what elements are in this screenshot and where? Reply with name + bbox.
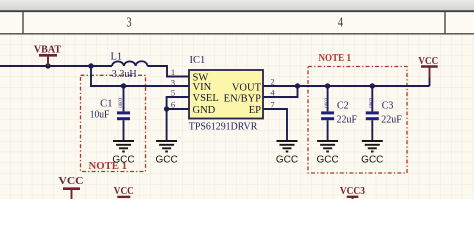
ground GCC under C1 xyxy=(112,141,134,165)
inductor L1 xyxy=(111,52,148,81)
power port VCC bottom-left xyxy=(59,176,84,199)
ground GCC under C3 xyxy=(361,141,383,165)
svg-text:5: 5 xyxy=(171,88,175,98)
svg-text:VIN: VIN xyxy=(193,82,212,93)
wire: GND pin xyxy=(167,108,189,110)
svg-text:1: 1 xyxy=(171,67,175,77)
svg-text:10uF: 10uF xyxy=(90,110,110,121)
svg-text:VCC: VCC xyxy=(418,56,438,67)
svg-text:4: 4 xyxy=(338,14,343,30)
power port VBAT xyxy=(34,45,61,66)
svg-text:C3: C3 xyxy=(382,100,394,111)
pin 6 GND xyxy=(171,99,216,115)
svg-text:GCC: GCC xyxy=(316,154,338,165)
junction at L1 branch xyxy=(88,63,93,68)
power port VCC3 bottom xyxy=(340,186,365,199)
sheet border band xyxy=(0,11,474,34)
pin 7 EP xyxy=(249,99,275,116)
ground GCC under EP xyxy=(276,141,298,165)
wire: VCC drop xyxy=(429,77,431,86)
NOTE 1 box left (dashed) xyxy=(81,75,146,171)
workspace gray strip above sheet xyxy=(0,0,474,11)
svg-text:GCC: GCC xyxy=(361,154,383,165)
pin 2 VOUT xyxy=(232,76,275,93)
svg-text:EN/BYP: EN/BYP xyxy=(224,93,262,104)
pin 1 SW xyxy=(171,67,208,83)
capacitor C2 xyxy=(321,86,357,141)
junction at C2 tap xyxy=(325,83,330,88)
pin 5 VSEL xyxy=(171,88,219,104)
svg-text:GCC: GCC xyxy=(112,154,134,165)
svg-text:GND: GND xyxy=(193,105,216,116)
svg-text:L1: L1 xyxy=(111,52,123,63)
svg-text:0603: 0603 xyxy=(370,97,375,108)
svg-text:VSEL: VSEL xyxy=(193,93,219,104)
svg-text:EP: EP xyxy=(249,105,261,116)
svg-text:NOTE 1: NOTE 1 xyxy=(319,52,352,64)
svg-text:VCC3: VCC3 xyxy=(340,186,365,197)
wire: main VBAT rail xyxy=(0,65,112,67)
svg-text:0603: 0603 xyxy=(119,97,124,108)
svg-text:TPS61291DRVR: TPS61291DRVR xyxy=(189,121,258,133)
wire: EN/BYP tie xyxy=(263,86,298,97)
svg-text:VOUT: VOUT xyxy=(232,82,262,93)
svg-text:GCC: GCC xyxy=(276,154,298,165)
capacitor C1 xyxy=(90,86,130,141)
svg-text:C1: C1 xyxy=(100,99,112,110)
power port VCC bottom small xyxy=(114,186,134,197)
svg-text:2: 2 xyxy=(270,76,274,86)
op-amp/regulator IC1 TPS61291DRVR xyxy=(189,55,263,133)
junction at EN/BYP tie xyxy=(295,83,300,88)
svg-text:VBAT: VBAT xyxy=(34,45,61,56)
svg-text:3.3uH: 3.3uH xyxy=(112,69,137,80)
pin 3 VIN xyxy=(171,77,212,93)
NOTE 1 box right (dashed) xyxy=(308,67,407,174)
svg-text:6: 6 xyxy=(171,99,175,109)
capacitor C3 xyxy=(366,86,402,141)
svg-text:0603: 0603 xyxy=(325,97,330,108)
svg-text:3: 3 xyxy=(171,77,175,87)
power port VCC right xyxy=(418,56,438,78)
wire: VSEL/GND riser xyxy=(167,97,189,141)
wire: VIN branch xyxy=(91,66,189,86)
pin 4 EN/BYP xyxy=(224,88,276,105)
svg-text:GCC: GCC xyxy=(155,154,177,165)
ground GCC under IC GND/VSEL xyxy=(155,141,177,165)
svg-text:22uF: 22uF xyxy=(337,114,358,125)
junction at GND pin xyxy=(164,106,169,111)
svg-text:VCC: VCC xyxy=(59,176,84,187)
ground GCC under C2 xyxy=(316,141,338,165)
column number 3 xyxy=(126,14,131,30)
svg-text:C2: C2 xyxy=(337,100,349,111)
svg-text:7: 7 xyxy=(270,99,274,109)
column number 4 xyxy=(338,14,343,30)
junction at VBAT tap xyxy=(45,63,50,68)
svg-text:3: 3 xyxy=(126,14,131,30)
junction at C3 tap xyxy=(370,83,375,88)
svg-text:22uF: 22uF xyxy=(381,114,402,125)
svg-text:VCC: VCC xyxy=(114,186,134,197)
junction at C1 tap xyxy=(121,83,126,88)
svg-text:IC1: IC1 xyxy=(190,55,206,66)
wire: L1 to corner xyxy=(148,66,190,77)
wire: EP to ground xyxy=(263,109,287,141)
wire: VOUT rail xyxy=(263,85,430,87)
